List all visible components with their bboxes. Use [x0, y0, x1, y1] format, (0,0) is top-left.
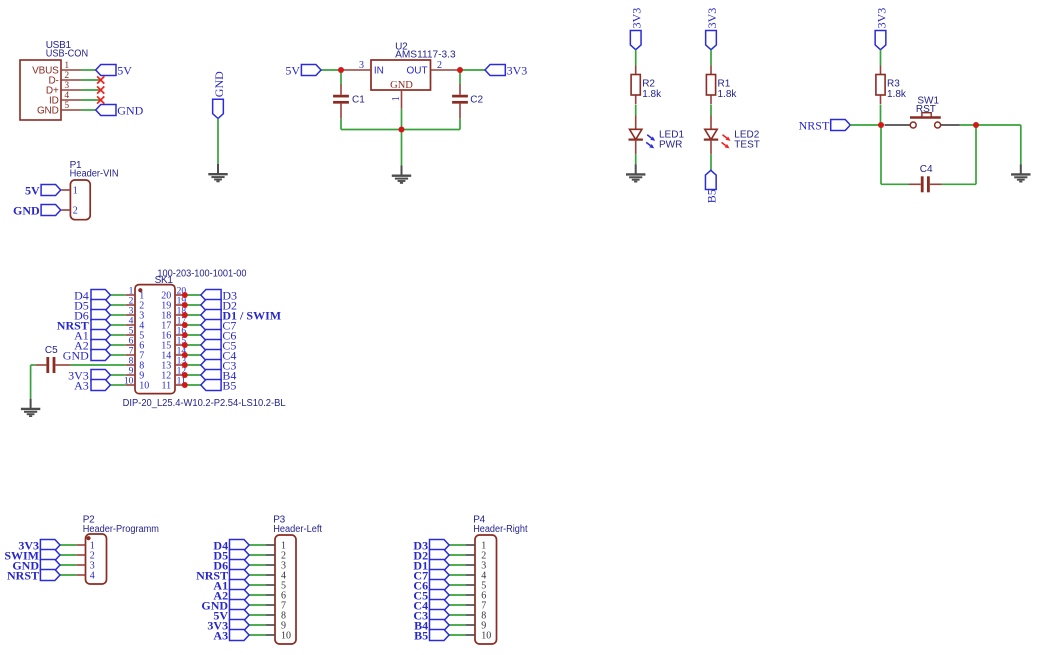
pin 20 of SK1: [175, 287, 186, 297]
ground (SW1): [1011, 164, 1030, 181]
pin 6 of SK1: [126, 337, 135, 347]
wire SK1 pin12: [185, 374, 201, 376]
net flag C3 (P4 pin8): [430, 610, 450, 621]
wire P4 pin8: [449, 614, 466, 616]
net flag D4 (SK1 pin1): [91, 290, 110, 301]
net flag C4 (SK1 pin14): [201, 350, 221, 361]
svg-text:2: 2: [64, 71, 69, 81]
net flag GND (P1 pin2): [41, 205, 61, 216]
pin 16 of SK1: [175, 327, 186, 337]
svg-text:C5: C5: [45, 345, 58, 356]
junction 5V/C1: [338, 67, 344, 73]
wire LED2 to B5 flag: [710, 154, 712, 170]
svg-text:3V3: 3V3: [874, 8, 888, 29]
pin 17 of SK1: [175, 317, 186, 327]
wire P4 pin6: [449, 594, 466, 596]
wire P4 pin2: [449, 554, 466, 556]
net flag 3V3 (P2 pin1): [40, 540, 60, 551]
net flag D3 (P4 pin1): [430, 540, 450, 551]
pin 10 of P3: [266, 634, 275, 636]
net flag GND (P3 pin7): [230, 600, 250, 611]
pin 11 of SK1: [175, 377, 186, 387]
net flag C6 (SK1 pin16): [201, 330, 221, 341]
svg-text:B5: B5: [414, 628, 428, 642]
wire P2 pin2: [60, 554, 76, 556]
net flag 5V (P3 pin8): [230, 610, 250, 621]
pin 7 of P3: [266, 604, 275, 606]
capacitor C2: [452, 84, 483, 118]
net flag NRST: [831, 120, 851, 131]
net flag NRST (P3 pin4): [230, 570, 250, 581]
svg-text:GND: GND: [37, 106, 59, 117]
svg-text:R1: R1: [718, 78, 731, 89]
wire P3 pin5: [249, 584, 266, 586]
pin 5 of P4: [466, 584, 475, 586]
junction SK1 pin14: [182, 352, 188, 358]
junction ground rail: [399, 127, 405, 133]
pin 1 of P4: [466, 544, 475, 546]
svg-text:1.8k: 1.8k: [718, 89, 738, 100]
wire to C4 left: [881, 183, 909, 185]
net flag B5 (SK1 pin11): [201, 380, 221, 391]
svg-text:3: 3: [129, 307, 134, 317]
junction SK1 pin17: [182, 322, 188, 328]
wire SK1 pin2: [110, 304, 125, 306]
junction SK1 pin20: [182, 292, 188, 298]
svg-text:A3: A3: [74, 378, 89, 392]
svg-text:Header-Programm: Header-Programm: [83, 524, 159, 535]
wire SK1 pin7: [110, 354, 125, 356]
wire P3 pin7: [249, 604, 266, 606]
wire P3 pin6: [249, 594, 266, 596]
svg-text:1: 1: [129, 287, 134, 297]
wire SK1 pin1: [110, 294, 125, 296]
svg-text:4: 4: [90, 571, 95, 582]
net flag GND (SK1 pin7): [91, 350, 110, 361]
regulator U2 AMS1117-3.3: [371, 42, 456, 91]
pin 5 of P3: [266, 584, 275, 586]
wire 5V flag to U2 IN: [321, 69, 341, 71]
wire P2 pin4: [60, 574, 76, 576]
wire U2 GND pin down: [401, 109, 403, 130]
wire SK1 pin20: [185, 294, 201, 296]
capacitor C4: [909, 164, 942, 192]
wire C1 to ground rail: [340, 119, 342, 130]
wire SK1 pin17: [185, 324, 201, 326]
pin 4 of P4: [466, 574, 475, 576]
power flag 3V3 (R1): [706, 31, 717, 50]
ground (below GND flag): [208, 164, 227, 181]
power flag GND: [213, 99, 224, 118]
net flag 3V3 (U2 OUT): [485, 65, 505, 76]
wire 3V3 to R2: [635, 50, 637, 66]
wire P3 pin8: [249, 614, 266, 616]
wire SK1 pin13: [185, 364, 201, 366]
net flag B5 (P4 pin10): [430, 630, 450, 641]
header P4 Header-Right: [473, 514, 527, 644]
net flag D5 (P3 pin2): [230, 550, 250, 561]
resistor R1: [706, 66, 737, 105]
net flag D1 (P4 pin3): [430, 560, 450, 571]
wire P2 pin1: [60, 544, 76, 546]
pin 18 of SK1: [175, 307, 186, 317]
wire USB1 pin3 (n/c): [81, 89, 101, 91]
svg-text:10: 10: [281, 631, 291, 642]
svg-text:1: 1: [391, 96, 402, 101]
junction SK1 pin12: [182, 372, 188, 378]
svg-text:Header-VIN: Header-VIN: [70, 168, 119, 179]
svg-text:3V3: 3V3: [507, 63, 528, 77]
net flag 5V (P1 pin1): [41, 185, 61, 196]
junction SK1 pin18: [182, 312, 188, 318]
pin 4 of USB1: [61, 91, 81, 101]
svg-text:1: 1: [73, 186, 78, 197]
junction SK1 pin13: [182, 362, 188, 368]
wire GND flag to ground: [217, 119, 219, 165]
wire up to SW1 right node: [975, 125, 977, 184]
svg-text:3: 3: [64, 81, 69, 91]
net flag B4 (SK1 pin12): [201, 370, 221, 381]
pin 2 of P3: [266, 554, 275, 556]
svg-text:11: 11: [162, 381, 172, 392]
svg-text:GND: GND: [13, 203, 40, 217]
pin 1 (GND) of U2: [391, 90, 402, 109]
wire SK1 pin4: [110, 324, 125, 326]
net flag A1 (SK1 pin5): [91, 330, 110, 341]
svg-text:OUT: OUT: [406, 65, 427, 76]
wire NRST flag to node: [850, 124, 881, 126]
net flag A2 (P3 pin6): [230, 590, 250, 601]
pin 2 of P4: [466, 554, 475, 556]
net flag D2 (P4 pin2): [430, 550, 450, 561]
pin 3 of P2: [76, 564, 85, 566]
pin 3 of P4: [466, 564, 475, 566]
wire R2 to LED1: [635, 105, 637, 116]
svg-text:1.8k: 1.8k: [887, 89, 907, 100]
no-connect X USB1 pin3: [97, 86, 104, 93]
svg-text:2: 2: [73, 206, 78, 217]
svg-text:RST: RST: [916, 104, 936, 115]
pin 3 (IN) of U2: [341, 60, 371, 71]
wire C5 to corner: [31, 364, 36, 366]
svg-text:DIP-20_L25.4-W10.2-P2.54-LS10.: DIP-20_L25.4-W10.2-P2.54-LS10.2-BL: [123, 398, 286, 409]
wire P4 pin10: [449, 634, 466, 636]
net flag D3 (SK1 pin20): [201, 290, 221, 301]
ground (C5): [21, 399, 40, 416]
wire LED1 to ground: [635, 154, 637, 164]
svg-text:GND: GND: [390, 80, 413, 91]
junction 3V3/C2: [457, 67, 463, 73]
pin 1 of P1: [61, 189, 70, 191]
net flag GND (P2 pin3): [40, 560, 60, 571]
svg-text:GND: GND: [117, 103, 143, 117]
net flag B5: [705, 170, 716, 189]
net flag D1 / SWIM (SK1 pin18): [201, 310, 221, 321]
svg-text:10: 10: [139, 381, 149, 392]
svg-text:3V3: 3V3: [630, 8, 644, 29]
pin 3 of SK1: [126, 307, 135, 317]
wire USB1 pin4 (n/c): [81, 99, 101, 101]
pin 4 of P2: [76, 574, 85, 576]
svg-text:NRST: NRST: [799, 118, 830, 132]
net flag NRST (P2 pin4): [40, 570, 60, 581]
wire P3 pin3: [249, 564, 266, 566]
junction SK1 pin11: [182, 382, 188, 388]
pin 12 of SK1: [175, 367, 186, 377]
svg-text:5V: 5V: [285, 63, 300, 77]
wire P4 pin7: [449, 604, 466, 606]
net flag C5 (P4 pin6): [430, 590, 450, 601]
pin 2 of P1: [61, 209, 70, 211]
pin 7 of P4: [466, 604, 475, 606]
pin 14 of SK1: [175, 347, 186, 357]
wire USB1 pin2 (n/c): [81, 79, 101, 81]
svg-text:9: 9: [129, 367, 134, 377]
resistor R3: [876, 66, 907, 105]
header P3 Header-Left: [273, 514, 322, 644]
net flag A3 (SK1 pin10): [91, 380, 110, 391]
svg-text:10: 10: [481, 631, 491, 642]
wire SK1 pin15: [185, 344, 201, 346]
svg-text:4: 4: [129, 317, 134, 327]
svg-text:5: 5: [64, 101, 69, 111]
wire U2 OUT to 3V3 flag: [460, 69, 485, 71]
svg-text:IN: IN: [374, 65, 384, 76]
svg-text:7: 7: [129, 347, 134, 357]
pin 5 of USB1: [61, 101, 81, 111]
wire C2 to ground rail: [459, 119, 461, 130]
junction SK1 pin15: [182, 342, 188, 348]
power flag 3V3 (R2): [630, 31, 641, 50]
pin 1 of P2: [76, 544, 85, 546]
wire down to ground: [1020, 125, 1022, 164]
socket SK1 DIP-20: [123, 268, 286, 408]
net flag C4 (P4 pin7): [430, 600, 450, 611]
pin 15 of SK1: [175, 337, 186, 347]
pin 13 of SK1: [175, 357, 186, 367]
net flag D6 (SK1 pin3): [91, 310, 110, 321]
pin 3 of P3: [266, 564, 275, 566]
capacitor C5: [35, 345, 70, 373]
net flag GND (USB1 pin5): [96, 105, 116, 116]
net flag C6 (P4 pin5): [430, 580, 450, 591]
wire P4 pin9: [449, 624, 466, 626]
wire R3 to NRST node: [880, 105, 882, 126]
wire SK1 pin10: [110, 384, 125, 386]
svg-text:GND: GND: [63, 348, 89, 362]
wire SK1 pin5: [110, 334, 125, 336]
svg-text:1.8k: 1.8k: [642, 89, 662, 100]
net flag C3 (SK1 pin13): [201, 360, 221, 371]
net flag C7 (SK1 pin17): [201, 320, 221, 331]
net flag NRST (SK1 pin4): [91, 320, 110, 331]
wire USB1 pin1 to 5V flag: [81, 69, 96, 71]
junction NRST node: [878, 122, 884, 128]
wire 3V3 to R1: [710, 50, 712, 66]
svg-text:5V: 5V: [25, 183, 40, 197]
no-connect X USB1 pin2: [97, 76, 104, 83]
svg-text:SK1: SK1: [155, 275, 174, 286]
junction SK1 pin19: [182, 302, 188, 308]
ground (LED1): [626, 164, 645, 181]
net flag D2 (SK1 pin19): [201, 300, 221, 311]
pin 4 of SK1: [126, 317, 135, 327]
wire SK1 pin19: [185, 304, 201, 306]
pin 9 of P3: [266, 624, 275, 626]
pin 6 of P3: [266, 594, 275, 596]
net flag 5V (U2 IN): [301, 65, 321, 76]
svg-text:2: 2: [437, 60, 442, 71]
LED LED1: [629, 116, 685, 155]
power flag 3V3 (R3): [875, 31, 886, 50]
wire 5V node down to C1: [340, 70, 342, 85]
header P1 Header-VIN: [70, 160, 119, 220]
pin 8 of SK1: [126, 357, 135, 367]
wire 3V3 node down to C2: [459, 70, 461, 85]
net flag D6 (P3 pin3): [230, 560, 250, 571]
net flag C7 (P4 pin4): [430, 570, 450, 581]
connector USB1 USB-CON: [20, 40, 88, 120]
pin 3 of USB1: [61, 81, 81, 91]
capacitor C1: [333, 84, 365, 118]
wire SK1 pin9: [110, 374, 125, 376]
net flag D5 (SK1 pin2): [91, 300, 110, 311]
svg-text:2: 2: [129, 297, 134, 307]
wire SK1 pin8 to C5: [70, 364, 125, 366]
wire P2 pin3: [60, 564, 76, 566]
svg-text:A3: A3: [213, 628, 228, 642]
svg-text:AMS1117-3.3: AMS1117-3.3: [395, 49, 456, 60]
svg-text:Header-Left: Header-Left: [273, 524, 322, 535]
svg-text:R2: R2: [642, 78, 655, 89]
pin 1 of P3: [266, 544, 275, 546]
svg-text:PWR: PWR: [659, 139, 682, 150]
wire SK1 pin6: [110, 344, 125, 346]
net flag C5 (SK1 pin15): [201, 340, 221, 351]
svg-text:6: 6: [129, 337, 134, 347]
svg-text:R3: R3: [887, 78, 900, 89]
pin 2 of USB1: [61, 71, 81, 81]
svg-text:C2: C2: [470, 95, 483, 106]
svg-text:GND: GND: [212, 71, 226, 97]
pin 6 of P4: [466, 594, 475, 596]
wire SK1 pin11: [185, 384, 201, 386]
net flag A1 (P3 pin5): [230, 580, 250, 591]
svg-text:4: 4: [64, 91, 69, 101]
pin 8 of P3: [266, 614, 275, 616]
pin 19 of SK1: [175, 297, 186, 307]
wire ground rail under U2: [341, 129, 460, 131]
net flag A3 (P3 pin10): [230, 630, 250, 641]
svg-text:5V: 5V: [117, 63, 132, 77]
svg-text:B5: B5: [705, 189, 719, 203]
wire P4 pin5: [449, 584, 466, 586]
wire 3V3 to R3: [880, 50, 882, 66]
wire P4 pin1: [449, 544, 466, 546]
junction SW1 right node: [973, 122, 979, 128]
wire C4 right: [942, 183, 976, 185]
pin 7 of SK1: [126, 347, 135, 357]
svg-text:5: 5: [129, 327, 134, 337]
svg-text:3: 3: [359, 60, 364, 71]
pin 2 of SK1: [126, 297, 135, 307]
wire down to ground: [30, 365, 32, 399]
wire SK1 pin18: [185, 314, 201, 316]
wire USB1 pin5 to GND flag: [81, 109, 96, 111]
svg-text:C4: C4: [920, 164, 933, 175]
svg-text:Header-Right: Header-Right: [473, 524, 527, 535]
resistor R2: [631, 66, 662, 105]
pin 9 of SK1: [126, 367, 135, 377]
net flag A2 (SK1 pin6): [91, 340, 110, 351]
wire SK1 pin14: [185, 354, 201, 356]
svg-text:USB-CON: USB-CON: [46, 49, 88, 60]
net flag 3V3 (P3 pin9): [230, 620, 250, 631]
wire P3 pin10: [249, 634, 266, 636]
wire NRST node down to C4: [880, 125, 882, 184]
svg-text:8: 8: [129, 357, 134, 367]
net flag D4 (P3 pin1): [230, 540, 250, 551]
pin 1 of USB1: [61, 61, 81, 71]
ground (U2): [392, 166, 411, 183]
pin 2 (OUT) of U2: [431, 60, 461, 71]
pin 9 of P4: [466, 624, 475, 626]
net flag 3V3 (SK1 pin9): [91, 370, 110, 381]
svg-text:1: 1: [64, 61, 69, 71]
wire SK1 pin16: [185, 334, 201, 336]
pin 10 of SK1: [124, 377, 135, 387]
wire P3 pin9: [249, 624, 266, 626]
wire R1 to LED2: [710, 105, 712, 116]
pin 2 of P2: [76, 554, 85, 556]
pin 5 of SK1: [126, 327, 135, 337]
net flag B4 (P4 pin9): [430, 620, 450, 631]
pin 10 of P4: [466, 634, 475, 636]
svg-text:C1: C1: [352, 95, 365, 106]
pin 1 of SK1: [126, 287, 135, 297]
svg-text:B5: B5: [222, 378, 236, 392]
switch SW1 RST: [885, 95, 960, 128]
wire P3 pin4: [249, 574, 266, 576]
pin 8 of P4: [466, 614, 475, 616]
svg-text:NRST: NRST: [7, 568, 39, 582]
svg-text:TEST: TEST: [734, 139, 760, 150]
wire P4 pin4: [449, 574, 466, 576]
wire P3 pin1: [249, 544, 266, 546]
net flag SWIM (P2 pin2): [40, 550, 60, 561]
wire SK1 pin3: [110, 314, 125, 316]
wire ground rail to ground: [401, 130, 403, 166]
wire SW1 to ground corner: [960, 124, 1021, 126]
wire P3 pin2: [249, 554, 266, 556]
pin 4 of P3: [266, 574, 275, 576]
header P2 Header-Programm: [83, 514, 159, 584]
LED LED2: [704, 116, 760, 155]
wire P4 pin3: [449, 564, 466, 566]
svg-text:3V3: 3V3: [705, 8, 719, 29]
net flag 5V (USB1 pin1): [96, 65, 116, 76]
no-connect X USB1 pin4: [97, 96, 104, 103]
junction SK1 pin16: [182, 332, 188, 338]
